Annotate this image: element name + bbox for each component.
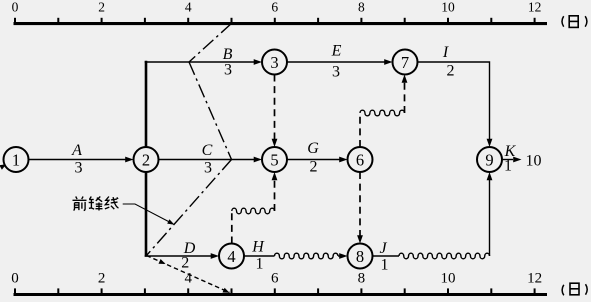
- front line small arrowhead near D corner: [159, 259, 166, 264]
- wire activity H with free-float wave 4-8: [244, 255, 275, 257]
- svg-text:5: 5: [270, 150, 278, 169]
- svg-text:3: 3: [270, 53, 278, 72]
- svg-text:9: 9: [485, 150, 493, 169]
- svg-text:G: G: [307, 140, 319, 157]
- svg-text:E: E: [331, 42, 342, 59]
- wire activity D arrow to node 4: [145, 255, 211, 257]
- wire activity G arrow 5-6: [287, 159, 340, 161]
- bottom ruler unit (day): [562, 283, 587, 295]
- node 5: [262, 147, 287, 172]
- svg-text:6: 6: [356, 150, 364, 169]
- bottom ruler ticks: [14, 288, 16, 293]
- dummy arrow 4-5 dashed with free-float wave: [231, 211, 233, 244]
- svg-text:8: 8: [356, 247, 364, 266]
- node 3: [262, 50, 287, 75]
- node 6: [348, 147, 373, 172]
- svg-text:2: 2: [447, 63, 455, 80]
- svg-text:2: 2: [310, 158, 318, 175]
- svg-text:12: 12: [528, 0, 542, 15]
- svg-text:6: 6: [271, 270, 279, 286]
- bottom time ruler line: [14, 293, 548, 296]
- svg-text:10: 10: [441, 270, 456, 286]
- svg-text:3: 3: [75, 159, 83, 176]
- svg-text:1: 1: [504, 157, 512, 174]
- node 9: [477, 147, 502, 172]
- svg-text:7: 7: [401, 53, 409, 72]
- svg-text:3: 3: [224, 62, 232, 79]
- svg-text:C: C: [202, 142, 213, 159]
- svg-text:8: 8: [358, 0, 365, 15]
- svg-text:8: 8: [358, 270, 366, 286]
- wire activity A arrow 1-2: [29, 159, 126, 161]
- node 7: [393, 50, 418, 75]
- svg-text:2: 2: [98, 270, 106, 286]
- wire riser node2 up to B start: [145, 61, 148, 148]
- svg-text:B: B: [223, 46, 233, 63]
- svg-text:A: A: [71, 142, 82, 159]
- front line segment ruler to activity B progress: [189, 23, 232, 62]
- top time ruler line: [14, 22, 548, 25]
- front line segment B to C progress: [189, 62, 232, 160]
- wire activity I arrow 7-9 (right then down): [418, 62, 490, 139]
- svg-text:4: 4: [185, 0, 192, 15]
- wire activity E arrow 3-7: [287, 61, 385, 63]
- wire drop node2 down to D start: [145, 171, 148, 257]
- dummy arrow 6-8 dashed: [359, 172, 361, 236]
- front line arrowhead at bottom ruler: [223, 288, 230, 293]
- svg-text:4: 4: [184, 270, 192, 286]
- svg-text:6: 6: [271, 0, 278, 15]
- front line segment C to D progress: [147, 160, 232, 256]
- node 8: [348, 244, 373, 269]
- svg-text:3: 3: [204, 159, 212, 176]
- svg-text:J: J: [379, 240, 387, 257]
- label qianfengxian text (front line): [73, 197, 119, 211]
- node 1: [4, 147, 29, 172]
- svg-text:3: 3: [332, 63, 340, 80]
- svg-text:12: 12: [527, 270, 542, 286]
- label qianfengxian (front line) leader arrow: [123, 204, 169, 222]
- svg-text:10: 10: [526, 153, 542, 170]
- svg-text:10: 10: [441, 0, 455, 15]
- top ruler ticks: [14, 18, 16, 23]
- svg-text:I: I: [442, 44, 449, 61]
- svg-text:1: 1: [256, 255, 264, 272]
- node 2: [134, 147, 159, 172]
- front line segment D to bottom ruler: [147, 256, 230, 293]
- svg-text:H: H: [251, 238, 265, 255]
- svg-text:0: 0: [12, 0, 19, 15]
- node 4: [219, 244, 244, 269]
- wire activity K arrow out of node 9: [502, 159, 513, 161]
- svg-text:2: 2: [98, 0, 105, 15]
- dummy arrow 6-7 dashed with free-float wave: [359, 113, 361, 147]
- wire activity C arrow 2-5: [159, 159, 255, 161]
- dummy arrow 3-5 dashed: [274, 75, 276, 140]
- svg-text:2: 2: [181, 255, 189, 272]
- wire activity B arrow to node 3: [145, 61, 254, 63]
- svg-text:0: 0: [11, 270, 19, 286]
- svg-text:4: 4: [227, 247, 235, 266]
- svg-text:1: 1: [381, 257, 389, 274]
- svg-text:1: 1: [12, 150, 20, 169]
- svg-text:2: 2: [142, 150, 150, 169]
- small start arrowhead at node 1: [0, 164, 6, 170]
- top ruler unit (day): [562, 16, 587, 28]
- wire activity J with wave 8-9 (right then up): [373, 255, 400, 257]
